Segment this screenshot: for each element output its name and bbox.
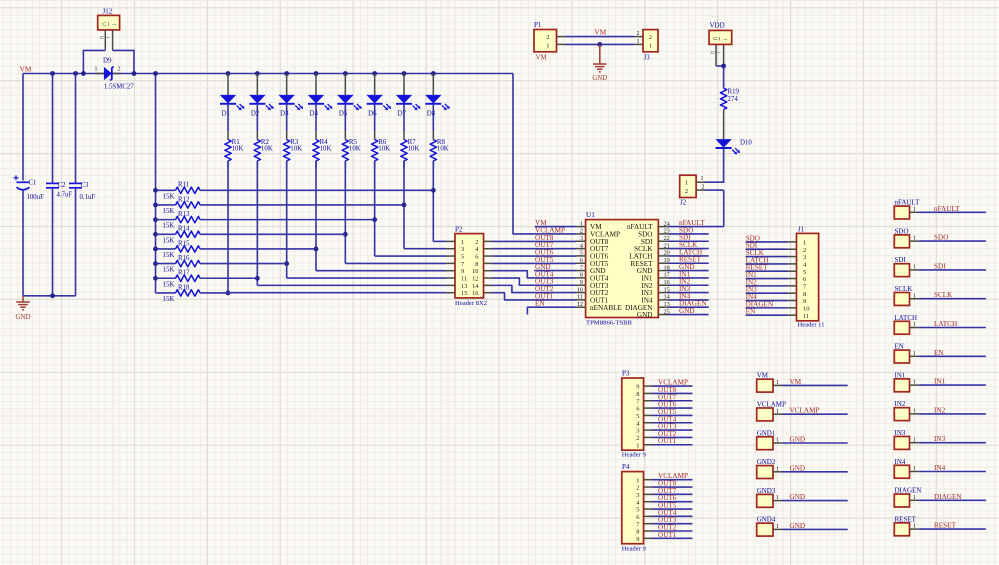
junction C3 top [73, 71, 78, 76]
wire P3 pin 2 [653, 436, 693, 438]
wire P4 pin 1 [653, 479, 693, 481]
net label OUT1 at P4 [658, 531, 677, 539]
net label VCLAMP at P4 [658, 472, 688, 480]
svg-text:2: 2 [636, 485, 639, 492]
net label IN2 [679, 278, 691, 286]
svg-text:15: 15 [461, 290, 467, 297]
net label OUT8 at P4 [658, 480, 677, 488]
svg-text:EN: EN [535, 300, 545, 308]
net label SCLK right [934, 291, 953, 299]
svg-text:D3: D3 [280, 110, 289, 117]
svg-text:VM: VM [536, 53, 548, 61]
svg-text:GND: GND [790, 493, 806, 501]
wire P4 pin 8 [653, 530, 693, 532]
svg-text:1: 1 [94, 66, 97, 73]
svg-text:⊂ı: ⊂ı [102, 21, 110, 28]
net label nFAULT [679, 219, 705, 227]
junction D3 top [284, 71, 289, 76]
wire J2 pin 2 to nFAULT [705, 189, 724, 191]
wire GND3 [782, 500, 848, 502]
svg-text:VCLAMP: VCLAMP [790, 407, 820, 415]
wire U1 pin 21 [668, 248, 709, 250]
svg-text:1: 1 [636, 477, 639, 484]
junction R15 left [153, 247, 158, 252]
net label OUT2 at P4 [658, 524, 677, 532]
connector J2 [680, 175, 705, 206]
wire nFAULT to J2 [668, 190, 724, 227]
wire LATCH right [919, 327, 986, 329]
svg-text:5: 5 [636, 413, 639, 420]
net label OUT3 at P4 [658, 516, 677, 524]
svg-text:C3: C3 [81, 182, 90, 189]
net label IN3 [679, 285, 691, 293]
wire into P2 pin 7 [345, 262, 446, 264]
wire U1 pin 16 [668, 284, 709, 286]
svg-text:1: 1 [913, 207, 916, 213]
svg-text:IN1: IN1 [934, 378, 946, 386]
wire U1 pin 23 [668, 233, 709, 235]
svg-text:R14: R14 [178, 226, 190, 233]
wire D10 to J2 pin 1 [705, 148, 724, 182]
diode D9 1.5SMC27 [94, 57, 134, 91]
svg-text:10: 10 [803, 305, 810, 312]
svg-text:1: 1 [546, 43, 549, 50]
wire P4 pin 6 [653, 515, 693, 517]
svg-text:P1: P1 [534, 21, 542, 29]
wire P3 pin 7 [653, 400, 693, 402]
svg-text:R15: R15 [178, 240, 190, 247]
svg-text:13: 13 [461, 283, 467, 290]
net label VCLAMP at VCLAMP [790, 407, 820, 415]
svg-text:1: 1 [701, 176, 704, 182]
svg-text:R12: R12 [178, 196, 190, 203]
svg-text:J3: J3 [644, 53, 651, 61]
svg-text:LATCH: LATCH [934, 320, 957, 328]
junction R14 left [153, 232, 158, 237]
svg-text:SDI: SDI [934, 262, 946, 270]
junction 15K bus top [153, 71, 158, 76]
wire 15K bus [155, 74, 157, 293]
net label VM [20, 65, 32, 74]
port GND1 [757, 429, 782, 449]
wire U1 pin 25 [668, 314, 709, 316]
svg-text:3: 3 [636, 428, 639, 435]
svg-text:1: 1 [913, 409, 916, 415]
svg-text:6: 6 [475, 254, 478, 261]
net label GND [679, 307, 695, 315]
port IN4 right [894, 458, 919, 478]
net label GND [679, 263, 695, 271]
wire SDO right [919, 240, 986, 242]
junction D4 top [314, 71, 319, 76]
svg-text:1: 1 [913, 322, 916, 328]
junction C2 top [50, 71, 55, 76]
net label SDO at J1 [746, 234, 760, 242]
net label DIAGEN [679, 300, 707, 308]
svg-text:1: 1 [913, 466, 916, 472]
LED D10 [715, 139, 752, 154]
svg-text:C2: C2 [58, 182, 67, 189]
junction D5 top [343, 71, 348, 76]
svg-text:2: 2 [117, 66, 120, 73]
resistor R16 15K [156, 255, 287, 274]
svg-text:2: 2 [580, 228, 583, 235]
wire P3 pin 9 [653, 385, 693, 387]
wire GND1 [782, 442, 848, 444]
net label OUT4 at P4 [658, 509, 677, 517]
svg-text:14: 14 [472, 283, 479, 290]
resistor R3 10K [283, 139, 302, 168]
port SCLK right [894, 285, 919, 305]
svg-text:1: 1 [636, 442, 639, 449]
svg-text:12: 12 [577, 301, 583, 308]
svg-text:nENABLE: nENABLE [590, 304, 623, 312]
svg-text:10K: 10K [437, 146, 449, 153]
net label SCLK at J1 [746, 249, 765, 257]
port IN1 right [894, 371, 919, 391]
svg-text:D10: D10 [740, 139, 752, 146]
net label OUT7 [535, 241, 554, 249]
net label OUT5 at P4 [658, 502, 677, 510]
net label EN [535, 300, 545, 308]
wire U1 pin 22 [668, 240, 709, 242]
svg-text:1: 1 [913, 380, 916, 386]
wire into P2 pin 11 [287, 277, 446, 279]
svg-text:P3: P3 [622, 369, 630, 377]
resistor R13 15K [156, 211, 375, 230]
connector J1 Header 11 [788, 226, 825, 329]
svg-text:D7: D7 [397, 110, 406, 117]
svg-text:VM: VM [790, 378, 802, 386]
svg-text:1: 1 [776, 524, 779, 530]
junction R18 row [226, 291, 231, 296]
net label SDI [679, 234, 691, 242]
junction D8 top [431, 71, 436, 76]
net label OUT2 at P3 [658, 430, 677, 438]
wire P4 pin 9 [653, 537, 693, 539]
junction D7 top [402, 71, 407, 76]
connector P1 [534, 21, 566, 61]
wire D8 anode [432, 74, 434, 96]
wire VM rail left of D9 [23, 73, 104, 75]
wire D4 column to row [315, 161, 317, 271]
svg-text:10: 10 [472, 268, 478, 275]
svg-text:Header 9: Header 9 [622, 452, 647, 459]
svg-text:15K: 15K [163, 267, 175, 274]
net label OUT1 [535, 292, 554, 300]
svg-text:DIAGEN: DIAGEN [934, 493, 962, 501]
svg-text:2: 2 [636, 435, 639, 442]
junction D2 top [255, 71, 260, 76]
net label RESET [679, 256, 702, 264]
svg-text:1: 1 [913, 524, 916, 530]
wire D8 column to row [432, 161, 434, 242]
wire J12 right leg [113, 50, 134, 73]
wire U1 pin 14 [668, 299, 709, 301]
svg-text:2: 2 [649, 34, 652, 41]
wire P2 pin 12 to U1 pin 9 [493, 278, 577, 285]
wire into P2 pin 1 [433, 240, 446, 242]
junction D1 top [226, 71, 231, 76]
wire P4 pin 5 [653, 508, 693, 510]
net label RESET right [934, 522, 957, 530]
resistor R18 15K [156, 284, 229, 303]
port SDO right [894, 227, 919, 247]
net label IN1 right [934, 378, 946, 386]
svg-text:1: 1 [637, 39, 640, 45]
svg-text:7: 7 [580, 264, 583, 271]
wire P3 pin 6 [653, 407, 693, 409]
net label VM mid [595, 28, 607, 36]
net label LATCH [679, 248, 702, 256]
net label SDO [679, 226, 693, 234]
wire D7 anode [403, 74, 405, 96]
svg-text:GND: GND [790, 522, 806, 530]
net label OUT5 [535, 256, 554, 264]
wire GND2 [782, 471, 848, 473]
svg-text:→: → [721, 35, 728, 42]
svg-text:10K: 10K [232, 146, 244, 153]
wire P2 pin 16 to U1 pin 11 [493, 293, 577, 300]
wire J1 pin 11 [746, 314, 788, 316]
wire IN2 right [919, 413, 986, 415]
junction R11 left [153, 188, 158, 193]
svg-text:IN2: IN2 [934, 406, 946, 414]
wire P3 pin 8 [653, 392, 693, 394]
svg-text:U1: U1 [586, 211, 595, 219]
wire P4 pin 3 [653, 493, 693, 495]
svg-text:15K: 15K [163, 208, 175, 215]
wire D2 cathode [256, 104, 258, 140]
wire U1 pin 18 [668, 270, 709, 272]
wire P4 pin 2 [653, 486, 693, 488]
wire P2 pin 14 to U1 pin 10 [493, 285, 577, 292]
port VM [757, 372, 782, 392]
svg-text:1: 1 [803, 240, 806, 247]
port IN3 right [894, 429, 919, 449]
svg-text:10K: 10K [408, 146, 420, 153]
wire P2 pin 8 to U1 pin 6 [493, 262, 577, 264]
wire U1 pin 17 [668, 277, 709, 279]
svg-text:10: 10 [577, 286, 583, 293]
net label OUT1 at P3 [658, 437, 677, 445]
svg-text:OUT1: OUT1 [658, 531, 677, 539]
wire nFAULT right [919, 211, 986, 213]
wire J1 pin 4 [746, 263, 788, 265]
svg-text:5: 5 [636, 507, 639, 514]
connector P3 Header 9 [622, 369, 653, 458]
wire J1 pin 5 [746, 270, 788, 272]
wire P4 pin 7 [653, 523, 693, 525]
svg-text:2: 2 [637, 31, 640, 37]
svg-text:100uF: 100uF [27, 194, 45, 201]
net label OUT6 at P4 [658, 494, 677, 502]
net label IN3 right [934, 435, 946, 443]
wire P3 pin 3 [653, 429, 693, 431]
connector P2 Header 8X2 [446, 226, 493, 307]
wire into P2 pin 15 [228, 292, 446, 294]
net label VM [535, 219, 547, 227]
svg-text:R13: R13 [178, 211, 190, 218]
svg-text:9: 9 [461, 268, 464, 275]
port GND2 [757, 458, 782, 478]
svg-text:IN4: IN4 [934, 464, 946, 472]
wire into P2 pin 3 [404, 248, 446, 250]
svg-text:C1: C1 [29, 179, 37, 186]
svg-text:IN3: IN3 [934, 435, 946, 443]
svg-text:⊂ı–: ⊂ı– [100, 36, 111, 42]
svg-text:15K: 15K [163, 252, 175, 259]
svg-text:5: 5 [580, 250, 583, 257]
resistor R19 274 [720, 88, 739, 109]
svg-text:2: 2 [803, 247, 806, 254]
wire P3 pin 1 [653, 444, 693, 446]
net label OUT8 [535, 234, 554, 242]
resistor R7 10K [401, 139, 420, 168]
net label OUT4 at P3 [658, 415, 677, 423]
wire D2 anode [256, 74, 258, 96]
svg-text:1: 1 [649, 43, 652, 50]
wire D2 column to row [256, 161, 258, 285]
wire C3 column [75, 74, 77, 296]
svg-text:R11: R11 [178, 182, 190, 189]
wire U1 pin 13 [668, 306, 709, 308]
wire U1 pin 15 [668, 292, 709, 294]
wire D6 cathode [374, 104, 376, 140]
wire VM [782, 384, 848, 386]
svg-text:GND: GND [637, 311, 653, 319]
svg-text:D1: D1 [222, 110, 231, 117]
wire D6 column to row [374, 161, 376, 256]
svg-text:R19: R19 [728, 88, 740, 95]
wire J1 pin 1 [746, 241, 788, 243]
svg-text:9: 9 [636, 384, 639, 391]
svg-text:1: 1 [776, 495, 779, 501]
net label OUT4 [535, 270, 554, 278]
wire P2 pin 2 to U1 pin 3 [493, 240, 577, 242]
svg-text:J1: J1 [798, 226, 805, 234]
resistor R15 15K [156, 240, 316, 259]
wire J1 pin 2 [746, 248, 788, 250]
wire J1 pin 10 [746, 307, 788, 309]
LED D4 [308, 95, 333, 117]
resistor R11 15K [156, 182, 434, 201]
LED D7 [396, 95, 421, 117]
svg-text:5: 5 [803, 269, 806, 276]
net label OUT6 at P3 [658, 401, 677, 409]
svg-text:1: 1 [776, 380, 779, 386]
svg-text:GND: GND [16, 314, 31, 321]
port SDI right [894, 256, 919, 276]
svg-text:2: 2 [475, 239, 478, 246]
svg-text:8: 8 [636, 529, 639, 536]
wire D8 cathode [432, 104, 434, 140]
junction R16 row [284, 261, 289, 266]
svg-text:GND: GND [592, 75, 607, 82]
svg-text:VM: VM [20, 65, 32, 74]
junction J12 left [81, 71, 86, 76]
svg-text:1: 1 [580, 220, 583, 227]
wire P2 pin 6 to U1 pin 5 [493, 255, 577, 257]
svg-text:1: 1 [913, 293, 916, 299]
net label GND at GND1 [790, 436, 806, 444]
svg-text:1: 1 [913, 236, 916, 242]
junction VDD pins [721, 64, 726, 69]
svg-text:1: 1 [913, 437, 916, 443]
net label nFAULT right [934, 205, 960, 213]
wire D6 anode [374, 74, 376, 96]
svg-text:VM: VM [535, 219, 547, 227]
svg-text:P2: P2 [455, 226, 463, 234]
wire D1 cathode [227, 104, 229, 140]
net label GND at GND2 [790, 464, 806, 472]
port IN2 right [894, 400, 919, 420]
wire J1 pin 6 [746, 278, 788, 280]
svg-text:D2: D2 [251, 110, 260, 117]
wire IN4 right [919, 471, 986, 473]
svg-text:Header 11: Header 11 [798, 321, 825, 328]
svg-text:GND: GND [679, 307, 695, 315]
net label IN3 at J1 [746, 286, 758, 294]
wire J12 left leg [83, 50, 105, 73]
net label SCLK [679, 241, 698, 249]
svg-text:GND: GND [790, 436, 806, 444]
svg-text:VM: VM [595, 28, 607, 36]
wire J1 pin 8 [746, 292, 788, 294]
net label EN right [934, 349, 944, 357]
svg-text:P4: P4 [622, 463, 630, 471]
wire D4 cathode [315, 104, 317, 140]
wire IN1 right [919, 384, 986, 386]
svg-text:2: 2 [685, 188, 688, 195]
port RESET right [894, 515, 919, 535]
svg-text:EN: EN [934, 349, 944, 357]
ground GND mid [592, 44, 607, 82]
port nFAULT right [894, 199, 920, 219]
svg-text:1: 1 [685, 180, 688, 187]
svg-text:RESET: RESET [934, 522, 957, 530]
svg-text:1: 1 [776, 466, 779, 472]
junction R12 left [153, 203, 158, 208]
svg-text:EN: EN [746, 308, 756, 316]
junction D6 top [372, 71, 377, 76]
wire J1 pin 9 [746, 300, 788, 302]
junction R17 row [255, 276, 260, 281]
svg-text:3: 3 [636, 492, 639, 499]
wire D1 anode [227, 74, 229, 96]
wire DIAGEN right [919, 499, 986, 501]
net label DIAGEN right [934, 493, 962, 501]
net label SDI right [934, 262, 946, 270]
wire VM stub [535, 226, 576, 228]
svg-text:3: 3 [461, 246, 464, 253]
wire P4 pin 4 [653, 501, 693, 503]
wire C2 column [52, 74, 54, 296]
svg-text:1.5SMC27: 1.5SMC27 [104, 83, 134, 90]
svg-text:OUT1: OUT1 [658, 437, 677, 445]
wire VCLAMP from rail [513, 74, 576, 234]
wire VCLAMP [782, 413, 848, 415]
wire SDI right [919, 269, 986, 271]
svg-text:D8: D8 [427, 110, 436, 117]
svg-text:D9: D9 [103, 57, 112, 65]
svg-text:1: 1 [913, 265, 916, 271]
net label IN2 right [934, 406, 946, 414]
resistor R17 15K [156, 270, 258, 289]
wire D4 anode [315, 74, 317, 96]
svg-text:1: 1 [776, 438, 779, 444]
port EN right [894, 343, 919, 363]
